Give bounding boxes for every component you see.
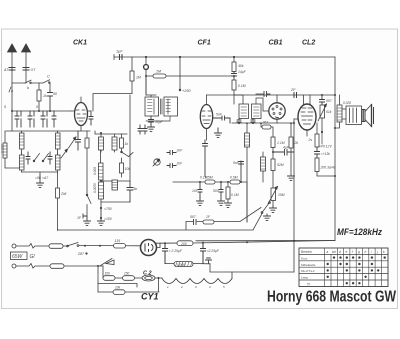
title Horny 668 Mascot GW bbox=[267, 289, 396, 306]
frame aerial coil 0.020 bbox=[3, 131, 20, 168]
capacitor 1uF bbox=[120, 55, 123, 60]
label 2M bbox=[60, 192, 67, 196]
wire osc return y202 bbox=[101, 201, 130, 203]
label 2nF upper bbox=[176, 149, 184, 153]
wire heater row y278 bbox=[98, 266, 162, 292]
resistor osc grid stopper bbox=[85, 131, 89, 195]
label 0.1M CF1 bbox=[200, 176, 208, 180]
svg-text:0.5M: 0.5M bbox=[230, 176, 238, 180]
switch wave band 2 bbox=[42, 154, 48, 162]
capacitor 4uF bbox=[273, 150, 294, 156]
svg-text:115: 115 bbox=[115, 239, 121, 243]
capacitor padder left bbox=[26, 152, 30, 164]
wire CL2 cathode drop x294 bbox=[293, 119, 295, 272]
resistor 267 bbox=[260, 122, 273, 137]
coil 0.38 right bbox=[56, 131, 61, 153]
label 5nF AF bbox=[233, 161, 240, 165]
tube U3 CB1 top view bbox=[263, 95, 285, 123]
band table dots row Lang bbox=[327, 276, 367, 278]
svg-text:=150: =150 bbox=[104, 217, 112, 221]
label CY1 bbox=[141, 292, 159, 302]
label 100 bbox=[181, 242, 187, 246]
wire AF line y182 bbox=[173, 181, 247, 183]
wire B plus drop x180 bbox=[179, 56, 181, 91]
svg-text:Bereich: Bereich bbox=[301, 250, 312, 254]
svg-text:100: 100 bbox=[105, 272, 111, 276]
svg-text:⊃: ⊃ bbox=[306, 282, 310, 287]
wire antenna bus y83 bbox=[12, 83, 50, 90]
switch mains bbox=[67, 243, 79, 247]
wire mains bottom y266 bbox=[16, 264, 103, 269]
trimmer capacitor pair 1 bbox=[15, 111, 21, 127]
ground mixer bbox=[84, 217, 91, 225]
svg-text:Mu-KT-Ltr: Mu-KT-Ltr bbox=[301, 269, 316, 273]
oscillator coil B bbox=[112, 134, 117, 152]
capacitor 14uF screen bbox=[232, 72, 237, 81]
label 750 bbox=[104, 207, 112, 211]
label 507 feedback bbox=[190, 215, 196, 219]
resistor 2k right bbox=[315, 123, 319, 147]
svg-text:Kurz: Kurz bbox=[301, 256, 308, 260]
label 13k bbox=[321, 152, 331, 156]
ground AF 1 bbox=[197, 199, 204, 205]
heater winding wavy bbox=[162, 272, 232, 284]
svg-text:200.3a/4s: 200.3a/4s bbox=[320, 166, 336, 170]
potentiometer 51k tone bbox=[318, 104, 327, 130]
svg-text:1k: 1k bbox=[125, 142, 129, 146]
label 0.51M bbox=[277, 163, 284, 167]
label 287 bbox=[77, 252, 88, 256]
capacitor 5nF CF1 bbox=[213, 116, 230, 123]
resistor R 2M bbox=[56, 188, 60, 231]
wire bottom bus y230.5 bbox=[58, 214, 263, 231]
capacitor 460 IF2 bbox=[237, 119, 241, 124]
capacitor 507 tone bbox=[320, 94, 325, 105]
label 5n bbox=[134, 187, 138, 191]
potentiometer 15M volume bbox=[268, 187, 278, 207]
ground AF 3 bbox=[225, 203, 232, 207]
wire detector row y172 bbox=[22, 172, 58, 175]
ground detector bbox=[37, 175, 44, 187]
switch mixer bbox=[86, 194, 91, 217]
oscillator coil 0.0055 bbox=[99, 180, 104, 210]
svg-text:52M: 52M bbox=[277, 163, 284, 167]
svg-text:100: 100 bbox=[181, 242, 187, 246]
band table row labels bbox=[301, 256, 316, 286]
capacitor 1F mixer bbox=[83, 214, 87, 218]
section label CK1 bbox=[73, 40, 87, 47]
resistor 10k heater tap bbox=[98, 278, 159, 294]
IF transformer T1 primary bbox=[145, 76, 159, 116]
svg-text:2M: 2M bbox=[60, 192, 67, 196]
svg-text:507: 507 bbox=[190, 215, 196, 219]
label 5nF CF1 bbox=[216, 113, 223, 117]
svg-text:0.0055: 0.0055 bbox=[93, 183, 97, 193]
svg-text:2: 2 bbox=[180, 285, 183, 289]
svg-text:Lang: Lang bbox=[301, 276, 308, 280]
label A7 pad bbox=[42, 176, 48, 180]
capacitor 5n osc bbox=[127, 181, 133, 202]
wire B plus top y243 bbox=[156, 241, 335, 248]
capacitor 5nF AF bbox=[239, 161, 244, 182]
label 0.0055 bbox=[93, 183, 97, 193]
wire x57 to resistor 2M bbox=[57, 172, 59, 188]
resistor 0.1M screen bbox=[232, 80, 236, 104]
label 0.5M AF left bbox=[205, 176, 213, 180]
wire heater sub y283 bbox=[98, 284, 137, 288]
node 750 bbox=[100, 207, 102, 209]
svg-text:CK1: CK1 bbox=[73, 40, 87, 47]
output transformer box bbox=[342, 106, 362, 125]
coil reaction bbox=[245, 123, 250, 222]
svg-text:0.008: 0.008 bbox=[93, 167, 97, 175]
terminal mains N bbox=[12, 264, 16, 268]
switch c bbox=[43, 80, 50, 84]
capacitor padder right bbox=[48, 152, 52, 164]
svg-text:C: C bbox=[47, 74, 50, 79]
speaker LS bbox=[362, 105, 374, 127]
label +Pil 125V bbox=[317, 145, 332, 149]
tube U1 CK1 bbox=[70, 97, 88, 131]
trimmer capacitor pair 4 bbox=[52, 111, 56, 127]
tuning capacitor arrow 1 bbox=[61, 149, 68, 158]
svg-text:5n: 5n bbox=[134, 187, 138, 191]
svg-text:267: 267 bbox=[262, 121, 269, 125]
label b bbox=[27, 86, 29, 90]
svg-text:30μF: 30μF bbox=[155, 120, 164, 124]
svg-text:=750: =750 bbox=[104, 207, 112, 211]
svg-text:2nF: 2nF bbox=[176, 162, 184, 166]
section label CB1 bbox=[269, 40, 283, 47]
svg-text:14μF: 14μF bbox=[238, 70, 247, 74]
capacitor 2nF lower bbox=[167, 164, 176, 168]
svg-text:507: 507 bbox=[326, 99, 332, 103]
tube U4 CL2 bbox=[294, 95, 316, 136]
coil padding bbox=[112, 180, 118, 190]
mains box 65W bbox=[11, 252, 28, 260]
wire left drop x12 bbox=[11, 111, 13, 131]
resistor 1M AVC vertical bbox=[130, 57, 134, 94]
label 0.1M AF bbox=[231, 193, 239, 197]
svg-text:2F: 2F bbox=[290, 88, 296, 92]
band table dots row MW bbox=[327, 263, 374, 265]
switch tone bbox=[261, 202, 270, 214]
svg-text:2s: 2s bbox=[308, 138, 313, 142]
label 1M AVC bbox=[136, 76, 141, 80]
wire osc top y134 bbox=[95, 131, 127, 134]
wire heater return y272 bbox=[210, 264, 294, 272]
svg-text:5: 5 bbox=[36, 105, 38, 109]
resistor 40k screen bbox=[232, 56, 236, 72]
svg-text:a: a bbox=[327, 250, 329, 254]
resistor 1k antenna bbox=[37, 83, 41, 111]
trimmer circle bbox=[144, 65, 149, 70]
svg-text:h: h bbox=[365, 250, 367, 254]
antenna AT bbox=[8, 44, 17, 83]
coil 0.0012 bbox=[56, 153, 61, 172]
capacitor 47F IF2 bbox=[251, 119, 255, 124]
svg-text:UT: UT bbox=[31, 68, 37, 72]
svg-text:d: d bbox=[339, 250, 341, 254]
svg-text:5nF: 5nF bbox=[216, 113, 223, 117]
label 4uF bbox=[283, 146, 290, 150]
resistor 100 smoothing bbox=[177, 241, 193, 246]
ground AF 2 bbox=[218, 201, 225, 205]
label 2k right bbox=[308, 138, 313, 142]
label UT bbox=[31, 68, 37, 72]
label +250 bbox=[182, 89, 191, 93]
svg-text:1M: 1M bbox=[156, 70, 161, 74]
svg-text:b: b bbox=[27, 86, 29, 90]
IF transformer T2 secondary bbox=[252, 98, 264, 119]
svg-text:10k: 10k bbox=[125, 167, 131, 171]
resistor 1.1M bbox=[271, 137, 275, 159]
svg-text:CF1: CF1 bbox=[198, 40, 211, 47]
wire AVC drop x146 bbox=[145, 56, 147, 95]
wire top coil bus y131 bbox=[6, 130, 90, 132]
heater tap numbers bbox=[167, 285, 225, 289]
svg-text:=+13k: =+13k bbox=[321, 152, 331, 156]
switch wave band 1 bbox=[33, 154, 39, 162]
band table header text bbox=[301, 250, 385, 254]
svg-text:=A7: =A7 bbox=[42, 176, 48, 180]
label 2.25uF first bbox=[169, 249, 183, 253]
coil 0.010 bbox=[261, 152, 266, 182]
label 0.008 osc bbox=[93, 167, 97, 175]
label 1k bbox=[43, 94, 47, 98]
node Pil bbox=[321, 130, 323, 144]
svg-text:5: 5 bbox=[4, 105, 6, 109]
capacitor 50 antenna bbox=[48, 90, 53, 111]
label 0.028 speaker bbox=[343, 101, 351, 105]
svg-text:15M: 15M bbox=[278, 193, 285, 197]
svg-text:C 2: C 2 bbox=[143, 271, 152, 277]
ground osc coil bbox=[98, 210, 105, 225]
band table grid bbox=[299, 248, 388, 287]
label 50 bbox=[53, 92, 57, 96]
wire AVC return y93.5 bbox=[93, 94, 132, 112]
terminal mains L bbox=[12, 244, 16, 248]
rectifier tube CY1 bbox=[141, 240, 157, 256]
capacitor 13k right bbox=[315, 147, 320, 158]
label 5 left bbox=[4, 105, 6, 109]
capacitor pair left of IF1 bbox=[138, 125, 147, 134]
capacitor 507 feedback bbox=[194, 220, 197, 225]
svg-text:AT: AT bbox=[3, 68, 9, 72]
svg-text:Horny 668 Mascot GW: Horny 668 Mascot GW bbox=[267, 289, 396, 306]
svg-text:150: 150 bbox=[124, 272, 130, 276]
capacitor coupling CB1 bbox=[256, 92, 270, 97]
svg-text:g: g bbox=[358, 250, 360, 254]
wire long vertical x130 bbox=[129, 95, 131, 181]
label 5 mid bbox=[36, 105, 38, 109]
oscillator coil A bbox=[99, 132, 104, 152]
wire B bus x335 bbox=[196, 57, 336, 241]
ground IF1 bbox=[148, 125, 155, 131]
label 0.5M AF right bbox=[230, 176, 238, 180]
svg-text:1M: 1M bbox=[136, 76, 141, 80]
svg-text:2nF: 2nF bbox=[176, 149, 184, 153]
choke coil 0.008 bbox=[165, 262, 210, 267]
label 10k heater tap bbox=[115, 286, 121, 290]
resistor mains bottom bbox=[50, 264, 64, 269]
phono jack J1 bbox=[153, 159, 160, 166]
svg-text:10k: 10k bbox=[115, 286, 121, 290]
label 150 bbox=[104, 217, 112, 221]
label AT bbox=[3, 68, 9, 72]
label 267 bbox=[262, 121, 269, 125]
label 40k bbox=[238, 64, 244, 68]
label 500 bbox=[213, 189, 219, 193]
svg-text:0.028: 0.028 bbox=[343, 101, 351, 105]
label 10F bbox=[192, 189, 199, 193]
band table dots row 3 bbox=[327, 269, 380, 271]
svg-text:1μF: 1μF bbox=[116, 50, 123, 54]
svg-text:50: 50 bbox=[53, 92, 57, 96]
label 115 bbox=[115, 239, 121, 243]
section label CF1 bbox=[198, 40, 211, 47]
svg-text:MF=128kHz: MF=128kHz bbox=[337, 227, 382, 238]
potentiometer barretter bbox=[100, 259, 114, 266]
section label CL2 bbox=[302, 40, 315, 47]
capacitor 10F AF bbox=[198, 182, 202, 199]
svg-text:= 2.25μF: = 2.25μF bbox=[169, 249, 183, 253]
label 2F bbox=[290, 88, 296, 92]
wire mains top y246 bbox=[16, 244, 141, 249]
IF T1 core bbox=[161, 99, 163, 114]
resistor 0.5M AF left bbox=[205, 180, 215, 184]
capacitor C 2.25uF first bbox=[163, 243, 168, 263]
svg-text:0.1M: 0.1M bbox=[238, 84, 246, 88]
switch osc bbox=[121, 151, 133, 156]
resistor 1F feedback bbox=[203, 220, 214, 224]
band table dots row KW bbox=[333, 256, 386, 258]
label 1M horizontal bbox=[156, 70, 161, 74]
ground CF1 cathode bbox=[215, 128, 222, 137]
label C 2 bbox=[143, 271, 152, 277]
coil 0.0008 bbox=[20, 153, 25, 172]
resistor 150 heater bbox=[123, 276, 135, 281]
label a bbox=[9, 87, 13, 93]
label 0.1M screen bbox=[238, 84, 246, 88]
label 10k osc bbox=[125, 167, 131, 171]
svg-text:500: 500 bbox=[213, 189, 219, 193]
resistor 100 heater bbox=[103, 276, 115, 281]
svg-text:e: e bbox=[346, 250, 348, 254]
ground choke tap bbox=[206, 258, 212, 264]
svg-text:b/c: b/c bbox=[332, 250, 337, 254]
trimmer capacitor pair 2 bbox=[28, 111, 34, 127]
tube U2 CF1 bbox=[200, 95, 212, 140]
capacitor C 2.25uF second bbox=[201, 243, 206, 264]
label 0.008 bbox=[177, 263, 185, 267]
IF transformer T2 primary bbox=[234, 95, 249, 119]
svg-text:CB1: CB1 bbox=[269, 40, 283, 47]
antenna UT bbox=[22, 44, 31, 83]
resistor 115 bbox=[114, 244, 126, 249]
label 200.3a4s bbox=[320, 166, 336, 170]
coil 0.38 left bbox=[20, 131, 25, 153]
band table dots row 5 bbox=[346, 282, 361, 284]
svg-text:10F: 10F bbox=[192, 189, 199, 193]
wire grid bus y111 bbox=[11, 83, 70, 112]
label c bbox=[47, 74, 50, 79]
svg-text:51k: 51k bbox=[326, 110, 332, 114]
capacitor 2nF upper bbox=[167, 151, 176, 155]
svg-text:0.1M: 0.1M bbox=[231, 193, 239, 197]
label 1.1M bbox=[277, 141, 285, 145]
ground volume bbox=[270, 206, 277, 212]
output transformer primary coil bbox=[335, 95, 342, 128]
svg-text:65W: 65W bbox=[12, 254, 24, 260]
resistor 2k CB1 bbox=[289, 122, 293, 176]
resistor 1M horizontal bbox=[145, 74, 232, 78]
label 2.25uF second bbox=[207, 249, 220, 253]
label 0.020 bbox=[1, 144, 5, 153]
fuse C2 bbox=[142, 275, 155, 281]
capacitor osc tracker bbox=[76, 131, 81, 150]
resistor 4k right bbox=[315, 158, 335, 176]
svg-text:Mittelwelle: Mittelwelle bbox=[301, 263, 316, 267]
label 1M osc bbox=[125, 142, 129, 146]
label 2k CB1 bbox=[294, 141, 299, 145]
label 1F feedback bbox=[206, 215, 211, 219]
svg-text:5nF: 5nF bbox=[233, 161, 240, 165]
svg-text:40k: 40k bbox=[238, 64, 244, 68]
capacitor 30uF IF1 bbox=[149, 116, 154, 125]
wire IF1 secondary drop bbox=[146, 116, 170, 121]
label 1F mixer bbox=[77, 216, 82, 220]
svg-text:j: j bbox=[376, 250, 378, 254]
svg-text:1k: 1k bbox=[43, 94, 47, 98]
wire osc link y181 bbox=[101, 180, 130, 182]
label MF=128kHz bbox=[337, 227, 382, 238]
wire feedback U y222 bbox=[186, 182, 261, 230]
label 1uF bbox=[116, 50, 123, 54]
resistor 0.5M AF right bbox=[230, 180, 240, 184]
coil osc tickler bbox=[99, 150, 104, 181]
resistor osc 10k bbox=[120, 158, 124, 177]
label 507 bbox=[326, 99, 332, 103]
ground CB1 bbox=[288, 176, 295, 180]
resistor 0.51M bbox=[271, 159, 275, 188]
label 100 heater bbox=[105, 272, 111, 276]
svg-text:287: 287 bbox=[77, 252, 85, 256]
wire y123 bus bbox=[232, 122, 295, 124]
label 15M bbox=[278, 193, 285, 197]
svg-text:1.1M: 1.1M bbox=[277, 141, 285, 145]
svg-text:0.020: 0.020 bbox=[1, 144, 5, 153]
wire plate line y95 bbox=[207, 94, 336, 96]
capacitor right of tube U1 bbox=[88, 111, 94, 125]
svg-text:CL2: CL2 bbox=[302, 40, 315, 47]
label 150 heater bbox=[124, 272, 130, 276]
svg-text:+250: +250 bbox=[182, 89, 191, 93]
resistor 0.1M AF bbox=[226, 182, 230, 203]
capacitor 2F bbox=[294, 93, 297, 98]
label 30uF bbox=[155, 120, 164, 124]
label 51k bbox=[326, 110, 332, 114]
label 65W bbox=[12, 254, 24, 260]
trimmer capacitor pair 3 bbox=[41, 111, 47, 127]
svg-text:CY1: CY1 bbox=[141, 292, 159, 302]
tuning capacitor arrow 2 bbox=[69, 137, 77, 148]
svg-text:0.5M: 0.5M bbox=[205, 176, 213, 180]
svg-text:=2.25μF: =2.25μF bbox=[207, 249, 220, 253]
label 2nF lower bbox=[176, 162, 184, 166]
capacitor 500 AF bbox=[219, 182, 223, 201]
IF transformer T1 secondary bbox=[164, 97, 178, 116]
